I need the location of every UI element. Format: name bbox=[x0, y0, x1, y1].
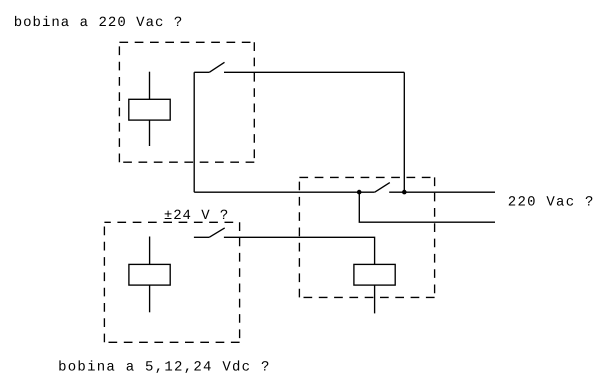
wire from S3 to coil RL2 bbox=[224, 237, 375, 264]
relay RL2 enclosure (dashed box, right) bbox=[299, 177, 434, 297]
wire mid horizontal left part bbox=[194, 191, 375, 193]
contact S2 blade (switch of RL2) bbox=[375, 183, 390, 193]
svg-text:bobina a 5,12,24 Vdc ?: bobina a 5,12,24 Vdc ? bbox=[58, 360, 271, 376]
wire top horizontal from S1 to right corner bbox=[224, 71, 404, 73]
svg-text:220 Vac ?: 220 Vac ? bbox=[508, 195, 595, 211]
wire from junction A down then right to 220 Vac second terminal bbox=[359, 192, 495, 222]
relay RL1 enclosure (dashed box) bbox=[119, 42, 254, 162]
switch S3 (24V source switch) bbox=[194, 228, 225, 237]
coil RL1 bbox=[129, 72, 170, 146]
relay RL3 enclosure (dashed box, bottom-left) bbox=[104, 222, 239, 342]
contact S1 (switch of RL1) bbox=[194, 62, 224, 72]
svg-text:bobina a 220 Vac ?: bobina a 220 Vac ? bbox=[14, 15, 184, 31]
svg-text:±24 V ?: ±24 V ? bbox=[164, 208, 229, 224]
wire mid horizontal right part to 220 Vac bbox=[389, 191, 495, 193]
junction dot B bbox=[402, 190, 407, 195]
wire right vertical bbox=[403, 72, 405, 192]
junction dot A bbox=[357, 190, 362, 195]
coil RL3 bbox=[129, 237, 170, 313]
wire left vertical bbox=[193, 72, 195, 192]
coil RL2 bbox=[354, 264, 395, 313]
